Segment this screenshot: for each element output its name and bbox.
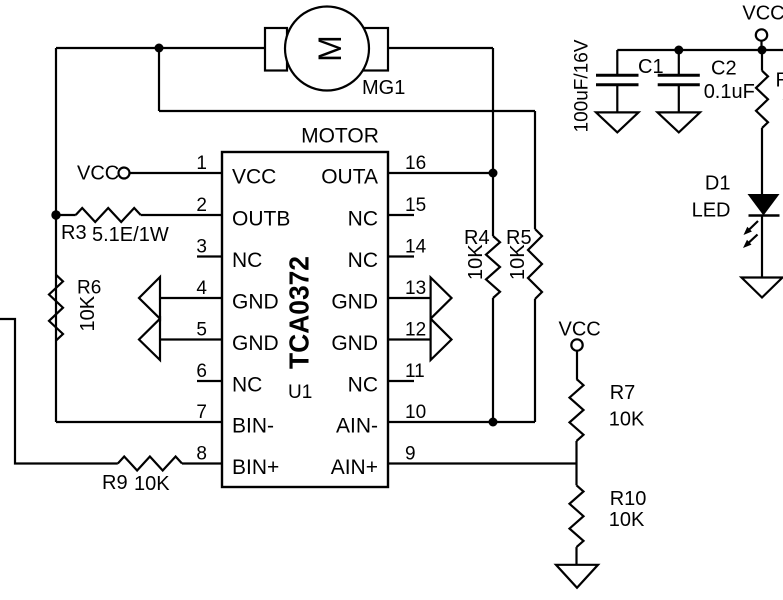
svg-text:9: 9 [405,444,416,465]
svg-text:BIN-: BIN- [232,415,274,438]
resistor R8 (clipped) [761,50,763,71]
wire: junction down [158,48,160,111]
resistor R9 10K [118,457,182,471]
svg-text:BIN+: BIN+ [232,456,279,479]
svg-text:MOTOR: MOTOR [301,125,379,148]
svg-text:R3: R3 [61,222,87,244]
svg-text:5: 5 [196,320,207,341]
svg-text:NC: NC [348,249,378,272]
LED light arrows [748,221,758,231]
wire pin 4 [160,297,222,299]
svg-text:NC: NC [232,374,262,397]
wire: vertical down to OUTA junction [492,48,494,173]
svg-text:GND: GND [331,332,378,355]
svg-text:AIN+: AIN+ [331,456,378,479]
svg-text:10K: 10K [609,409,645,431]
svg-text:M: M [312,35,348,62]
svg-text:R9: R9 [102,472,128,494]
ground under R10 [556,565,598,588]
ground arrow pin 4 [139,277,160,319]
resistor R10 10K [570,485,584,547]
svg-text:100uF/16V: 100uF/16V [572,39,593,132]
svg-text:2: 2 [196,195,207,216]
node: OUTA junction [489,169,498,178]
ground arrow pin 12 [431,319,452,360]
svg-text:C2: C2 [711,58,737,80]
ground under C2 [658,112,701,132]
svg-text:R6: R6 [77,278,101,299]
node: rail to R3 junction [51,210,60,219]
svg-text:1: 1 [196,153,207,174]
svg-text:NC: NC [348,374,378,397]
wire: R5 bottom lead to AIN- [534,299,536,422]
svg-text:6: 6 [196,361,207,382]
svg-text:VCC: VCC [742,3,783,25]
wire R7-R10 junction [575,441,577,485]
svg-text:3: 3 [196,237,207,258]
node: C2 junction [674,46,683,55]
wire: R4 bottom lead [492,298,494,422]
svg-text:4: 4 [196,278,207,299]
resistor R3 5.1E/1W [56,214,76,216]
resistor R6 10K [49,275,63,341]
node: R4 to AIN- junction [489,418,498,427]
svg-text:D1: D1 [705,173,731,195]
wire: R4 top lead [492,173,494,236]
svg-text:10K: 10K [507,244,529,280]
wire pin 9 AIN+ [388,462,577,464]
wire pin 13 [388,297,431,299]
wire: VCC rail [617,49,783,51]
wire LED to ground [761,216,763,278]
resistor R4 10K [486,236,500,298]
wire: R5 top lead [534,111,536,229]
wire pin 5 [160,338,222,340]
svg-text:VCC: VCC [232,166,276,189]
svg-text:10: 10 [405,402,426,423]
svg-text:10K: 10K [134,473,170,495]
motor MG1 brushes [265,28,287,71]
svg-text:10K: 10K [609,509,645,531]
svg-text:16: 16 [405,153,426,174]
svg-text:8: 8 [196,444,207,465]
svg-text:AIN-: AIN- [336,415,378,438]
svg-text:GND: GND [232,291,279,314]
motor MG1 circle [285,7,369,91]
svg-text:MG1: MG1 [362,77,405,99]
svg-text:10K: 10K [77,295,99,331]
svg-text:R7: R7 [610,382,636,404]
wire pin1 [130,172,223,174]
svg-text:10K: 10K [465,244,487,280]
wire R10 bottom lead [575,547,577,565]
svg-text:11: 11 [405,361,425,382]
wire pin 12 [388,338,431,340]
resistor R7 10K [570,379,584,441]
wire R7 top lead [576,351,578,379]
svg-text:NC: NC [348,208,378,231]
pin 6 stub [197,380,222,382]
op-amp U1 TCA0372 package [222,152,388,487]
resistor R5 10K [528,229,542,299]
wire: motor right to vertical branch [388,47,493,49]
svg-text:LED: LED [692,200,731,222]
svg-text:12: 12 [405,320,426,341]
node: R8 branch junction [758,46,767,55]
svg-text:VCC: VCC [559,319,601,341]
svg-text:VCC: VCC [77,163,119,185]
wire pin 10 AIN- [388,421,535,423]
pin 3 stub [197,255,222,257]
ground under LED [742,278,783,298]
diode D1 LED [748,194,780,216]
wire: horizontal to R5 branch [159,110,535,112]
svg-text:GND: GND [331,291,378,314]
wire: top rail horizontal to motor [56,47,266,49]
svg-text:7: 7 [196,402,207,423]
node: junction top rail to R5 branch [155,44,164,53]
ground arrow pin 13 [431,278,452,319]
svg-text:13: 13 [405,278,426,299]
svg-text:OUTA: OUTA [321,166,378,189]
wire pin 16 OUTA [388,172,493,174]
svg-text:NC: NC [232,249,262,272]
pin 11 stub [388,380,414,382]
svg-text:TCA0372: TCA0372 [284,256,315,369]
pin 14 stub [388,255,414,257]
wire R8 to LED [761,128,763,194]
svg-text:GND: GND [232,332,279,355]
pin 15 stub [388,214,414,216]
capacitor C2 0.1uF [678,50,680,74]
ground arrow pin 5 [139,319,160,360]
svg-text:0.1uF: 0.1uF [704,81,755,103]
svg-text:U1: U1 [288,382,312,403]
capacitor C1 100uF/16V [616,50,618,74]
ground under C1 [596,112,639,132]
wire: input from left edge [0,319,118,464]
svg-text:14: 14 [405,237,427,258]
svg-text:5.1E/1W: 5.1E/1W [92,224,169,246]
svg-text:R10: R10 [610,488,647,510]
svg-text:OUTB: OUTB [232,208,290,231]
wire pin 7 BIN- [56,421,222,423]
wire: top-left rail vertical [55,48,57,422]
svg-text:15: 15 [405,195,426,216]
